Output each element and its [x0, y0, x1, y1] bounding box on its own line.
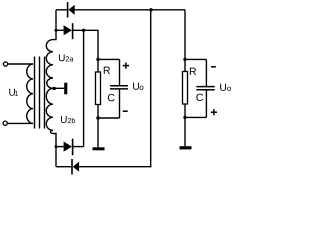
- core line 1: [34, 57, 36, 129]
- label U1: [9, 89, 18, 96]
- wire right rail down: [184, 10, 186, 60]
- wire C2 bottom lead: [205, 90, 207, 117]
- wire primary top: [8, 63, 33, 65]
- wire left rail (D2/D3 common): [83, 30, 85, 146]
- wire R2 top lead: [184, 59, 186, 71]
- plus sign right: [211, 109, 217, 115]
- minus sign right: [211, 66, 216, 68]
- capacitor C (right) bottom plate: [196, 89, 215, 91]
- diode D1 cathode bar: [67, 2, 69, 17]
- diode D4 triangle: [73, 162, 79, 172]
- node junction right network top: [183, 58, 186, 61]
- node junction left network bottom: [96, 116, 99, 119]
- plus sign left: [123, 63, 129, 69]
- wire ground lead left: [97, 118, 99, 147]
- node junction top rail: [149, 8, 152, 11]
- wire D3 to left rail: [73, 146, 84, 148]
- ground (left): [93, 147, 105, 150]
- ground (right): [180, 146, 192, 149]
- node junction left network top: [96, 58, 99, 61]
- primary winding U1: [27, 64, 33, 123]
- label U2b: [61, 116, 75, 123]
- label U0 left: [133, 83, 143, 91]
- wire D3 branch: [56, 146, 64, 148]
- secondary winding U2b: [46, 88, 53, 133]
- node junction secondary bottom feed: [55, 145, 58, 148]
- wire primary bottom: [8, 122, 33, 124]
- capacitor C (left) bottom plate: [110, 88, 128, 90]
- wire left network bottom: [98, 117, 120, 119]
- node junction right network bottom: [183, 116, 186, 119]
- terminal bottom-left: [3, 121, 7, 125]
- center tap wire: [53, 87, 64, 89]
- wire secondary top: [53, 10, 56, 40]
- label R left: [104, 67, 110, 74]
- wire D2 branch: [56, 29, 64, 31]
- label U0 right: [220, 84, 231, 91]
- wire R1 top lead: [97, 59, 99, 72]
- diode D3 cathode bar: [72, 139, 74, 156]
- wire right network top: [185, 58, 206, 60]
- core line 2: [39, 57, 41, 129]
- wire top rail left: [56, 9, 67, 11]
- terminal top-left: [3, 62, 7, 66]
- wire right network bottom: [185, 116, 206, 118]
- wire C1 top lead: [119, 59, 121, 85]
- wire R1 bottom lead: [97, 105, 99, 119]
- resistor R (right): [183, 72, 188, 105]
- label U2a: [59, 54, 73, 61]
- wire secondary bottom: [53, 134, 56, 167]
- center tap terminal bar: [64, 83, 67, 95]
- wire D4 left: [56, 166, 72, 168]
- wire bottom rail: [79, 10, 151, 167]
- capacitor C (left) top plate: [110, 85, 128, 87]
- diode D1 triangle: [68, 5, 74, 15]
- capacitor C (right) top plate: [196, 86, 215, 88]
- label C right: [196, 94, 203, 101]
- wire C2 top lead: [205, 59, 207, 86]
- core line 3: [44, 57, 46, 129]
- node junction plus rail: [82, 29, 85, 32]
- minus sign left: [123, 110, 128, 112]
- wire ground lead right: [184, 117, 186, 146]
- diode D2 cathode bar: [72, 23, 74, 39]
- label C left: [108, 94, 115, 101]
- wire left network top: [98, 58, 120, 60]
- node junction secondary feed: [54, 29, 57, 32]
- center tap junction: [53, 87, 56, 90]
- wire D2 to plus node: [73, 30, 98, 59]
- wire R2 bottom lead: [184, 104, 186, 117]
- wire C1 bottom lead: [119, 90, 121, 118]
- diode D4 cathode bar: [71, 159, 73, 175]
- secondary winding U2a: [46, 40, 53, 89]
- label R right: [190, 68, 196, 75]
- diode D3 triangle: [64, 142, 72, 152]
- diode D2 triangle: [64, 25, 72, 35]
- resistor R (left): [96, 72, 101, 105]
- wire top rail right: [75, 9, 185, 11]
